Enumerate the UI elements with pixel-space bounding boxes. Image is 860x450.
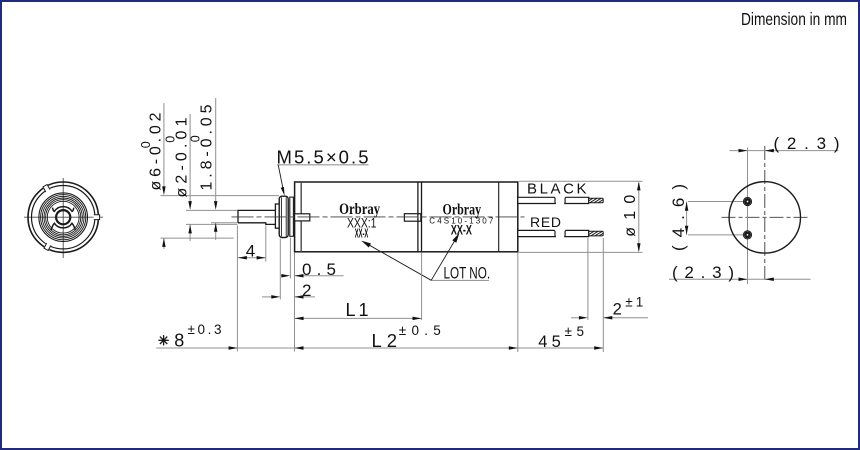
svg-text:Dimension in mm: Dimension in mm — [741, 9, 847, 29]
rear view terminal extension lines — [688, 148, 748, 285]
dimension ø2 / 1.8 extension lines — [186, 210, 238, 224]
dimension 4 — [237, 241, 265, 260]
svg-text:0.5: 0.5 — [302, 260, 336, 279]
dimension ø6 extension lines — [161, 196, 280, 239]
front view ring notch lower-left — [43, 243, 51, 251]
front view gear rings — [39, 193, 88, 242]
extension line body front face — [294, 253, 296, 352]
gearbox label Orbray — [339, 201, 380, 218]
terminal pin top — [743, 197, 751, 205]
dimension *8 +-0.3 text — [158, 322, 221, 351]
svg-text:(2.3): (2.3) — [774, 134, 840, 153]
extension line flat end — [265, 226, 267, 262]
front view shaft circle — [56, 210, 70, 224]
washer — [290, 197, 294, 236]
extension lines tinned end — [588, 238, 603, 352]
lot number callout — [361, 233, 490, 283]
side slot front — [295, 214, 310, 221]
red lead wire segment 1 — [518, 230, 556, 236]
dimension 45 +-5 text — [538, 324, 584, 351]
extension line body rear — [517, 253, 519, 352]
thread callout M5.5x0.5 — [277, 147, 369, 196]
svg-text:±0.5: ±0.5 — [399, 323, 441, 338]
dimension (2.3) top — [730, 134, 840, 153]
motor type label C4S10-1307 — [429, 217, 494, 226]
svg-text:RED: RED — [530, 214, 561, 230]
end cap line — [498, 182, 500, 252]
front view retaining clip lower arc with legs — [51, 223, 75, 230]
black lead tinned end — [589, 198, 604, 203]
shaft — [238, 210, 275, 224]
shaft step ring — [275, 204, 279, 228]
svg-text:ø6-0.02: ø6-0.02 — [147, 112, 164, 190]
front view retaining clip upper arc — [53, 207, 74, 212]
svg-text:ø10: ø10 — [622, 195, 639, 237]
extension line washer left — [289, 238, 291, 279]
gearbox/motor junction lines — [418, 182, 422, 252]
svg-text:BLACK: BLACK — [527, 180, 587, 197]
wire label BLACK — [527, 180, 587, 197]
threaded collar M5.5 — [279, 196, 288, 237]
wire label RED — [530, 214, 561, 230]
title note: Dimension in mm — [741, 9, 847, 29]
side view centerline — [232, 216, 525, 218]
rear view body circle — [729, 182, 800, 253]
front view ring notch upper-left — [42, 184, 51, 193]
svg-text:±1: ±1 — [625, 295, 643, 310]
motor label Orbray — [443, 201, 482, 218]
svg-text:ø2-0.01: ø2-0.01 — [173, 117, 190, 197]
gearbox ratio label XXX:1 — [347, 214, 377, 230]
motor lot label XX-X — [451, 222, 472, 238]
svg-text:L1: L1 — [346, 300, 369, 320]
svg-text:2: 2 — [302, 281, 311, 300]
svg-text:4: 4 — [246, 241, 255, 260]
red lead tinned end — [589, 231, 604, 236]
svg-text:0: 0 — [164, 136, 178, 143]
front view ring notch right — [93, 214, 100, 220]
dimension row line 8 / L2 / 45 — [156, 346, 603, 350]
black lead wire segment 1 — [518, 197, 556, 203]
extension line thread face — [279, 239, 281, 300]
svg-text:±0.3: ±0.3 — [188, 322, 222, 337]
svg-text:XX-X: XX-X — [355, 226, 369, 241]
dimension ø6 — [139, 103, 166, 249]
dimension 2 +-1 — [571, 295, 648, 320]
svg-text:±5: ±5 — [565, 324, 585, 339]
svg-text:(4.6): (4.6) — [669, 184, 688, 251]
dimension (4.6) left — [669, 184, 689, 251]
dimension L2 +-0.5 text — [372, 323, 441, 351]
svg-text:0: 0 — [139, 141, 153, 148]
black lead wire segment 2 — [564, 197, 588, 203]
front view housing outer circles — [28, 182, 98, 252]
dimension L1 — [295, 300, 422, 320]
dimension 0.5 — [281, 260, 343, 279]
terminal pin bottom — [743, 231, 751, 239]
dimension ø2 — [164, 114, 192, 241]
motor body outline — [295, 182, 518, 252]
dimension (2.3) bottom — [669, 263, 811, 282]
svg-text:8: 8 — [174, 330, 184, 350]
dimension 2 — [262, 281, 315, 300]
gearbox lot label XX-X — [355, 226, 369, 241]
svg-text:XX-X: XX-X — [451, 222, 472, 238]
extension line shaft tip — [236, 226, 238, 352]
red lead wire segment 2 — [564, 230, 588, 236]
dimension 1.8 — [188, 98, 217, 240]
extension line motor front — [421, 253, 423, 320]
front view centerlines — [24, 178, 103, 258]
svg-text:0: 0 — [188, 135, 202, 142]
rear view centerlines — [722, 146, 809, 282]
dimension ø10 — [519, 181, 643, 252]
side slot rear — [404, 214, 420, 222]
svg-text:1.8-0.05: 1.8-0.05 — [198, 104, 215, 190]
gearbox front bearing line — [300, 182, 302, 252]
svg-text:2: 2 — [613, 300, 622, 318]
